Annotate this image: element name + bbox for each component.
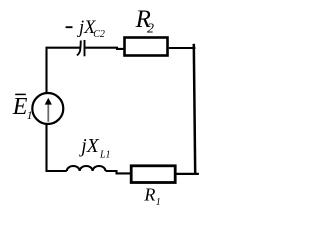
- wire right rail: [194, 44, 195, 174]
- wire bottom-left corner to inductor: [47, 124, 67, 171]
- svg-text:E: E: [12, 94, 28, 120]
- wire top-left corner to capacitor: [47, 48, 80, 93]
- source arrow shaft: [47, 104, 49, 122]
- label E1 overbar: [15, 93, 26, 95]
- svg-text:jX: jX: [78, 136, 99, 157]
- source U1 circle: [32, 93, 63, 124]
- source arrow head: [45, 98, 52, 105]
- resistor R1: [131, 166, 175, 183]
- label -jXC2: [66, 26, 73, 28]
- capacitor C2 left plate: [77, 41, 81, 56]
- svg-text:1: 1: [156, 197, 161, 208]
- wire R2 to right rail: [169, 47, 196, 49]
- svg-text:C2: C2: [93, 29, 105, 40]
- svg-text:1: 1: [27, 110, 33, 122]
- svg-text:2: 2: [147, 22, 154, 37]
- svg-text:R: R: [143, 185, 155, 205]
- resistor R2: [125, 38, 168, 56]
- capacitor C2 right plate: [84, 40, 86, 56]
- svg-text:L1: L1: [99, 150, 111, 161]
- wire bottom-right to R1: [177, 173, 199, 175]
- inductor L1: [67, 166, 106, 171]
- wire capacitor to R2: [86, 48, 125, 49]
- wire inductor to R1: [106, 171, 132, 173]
